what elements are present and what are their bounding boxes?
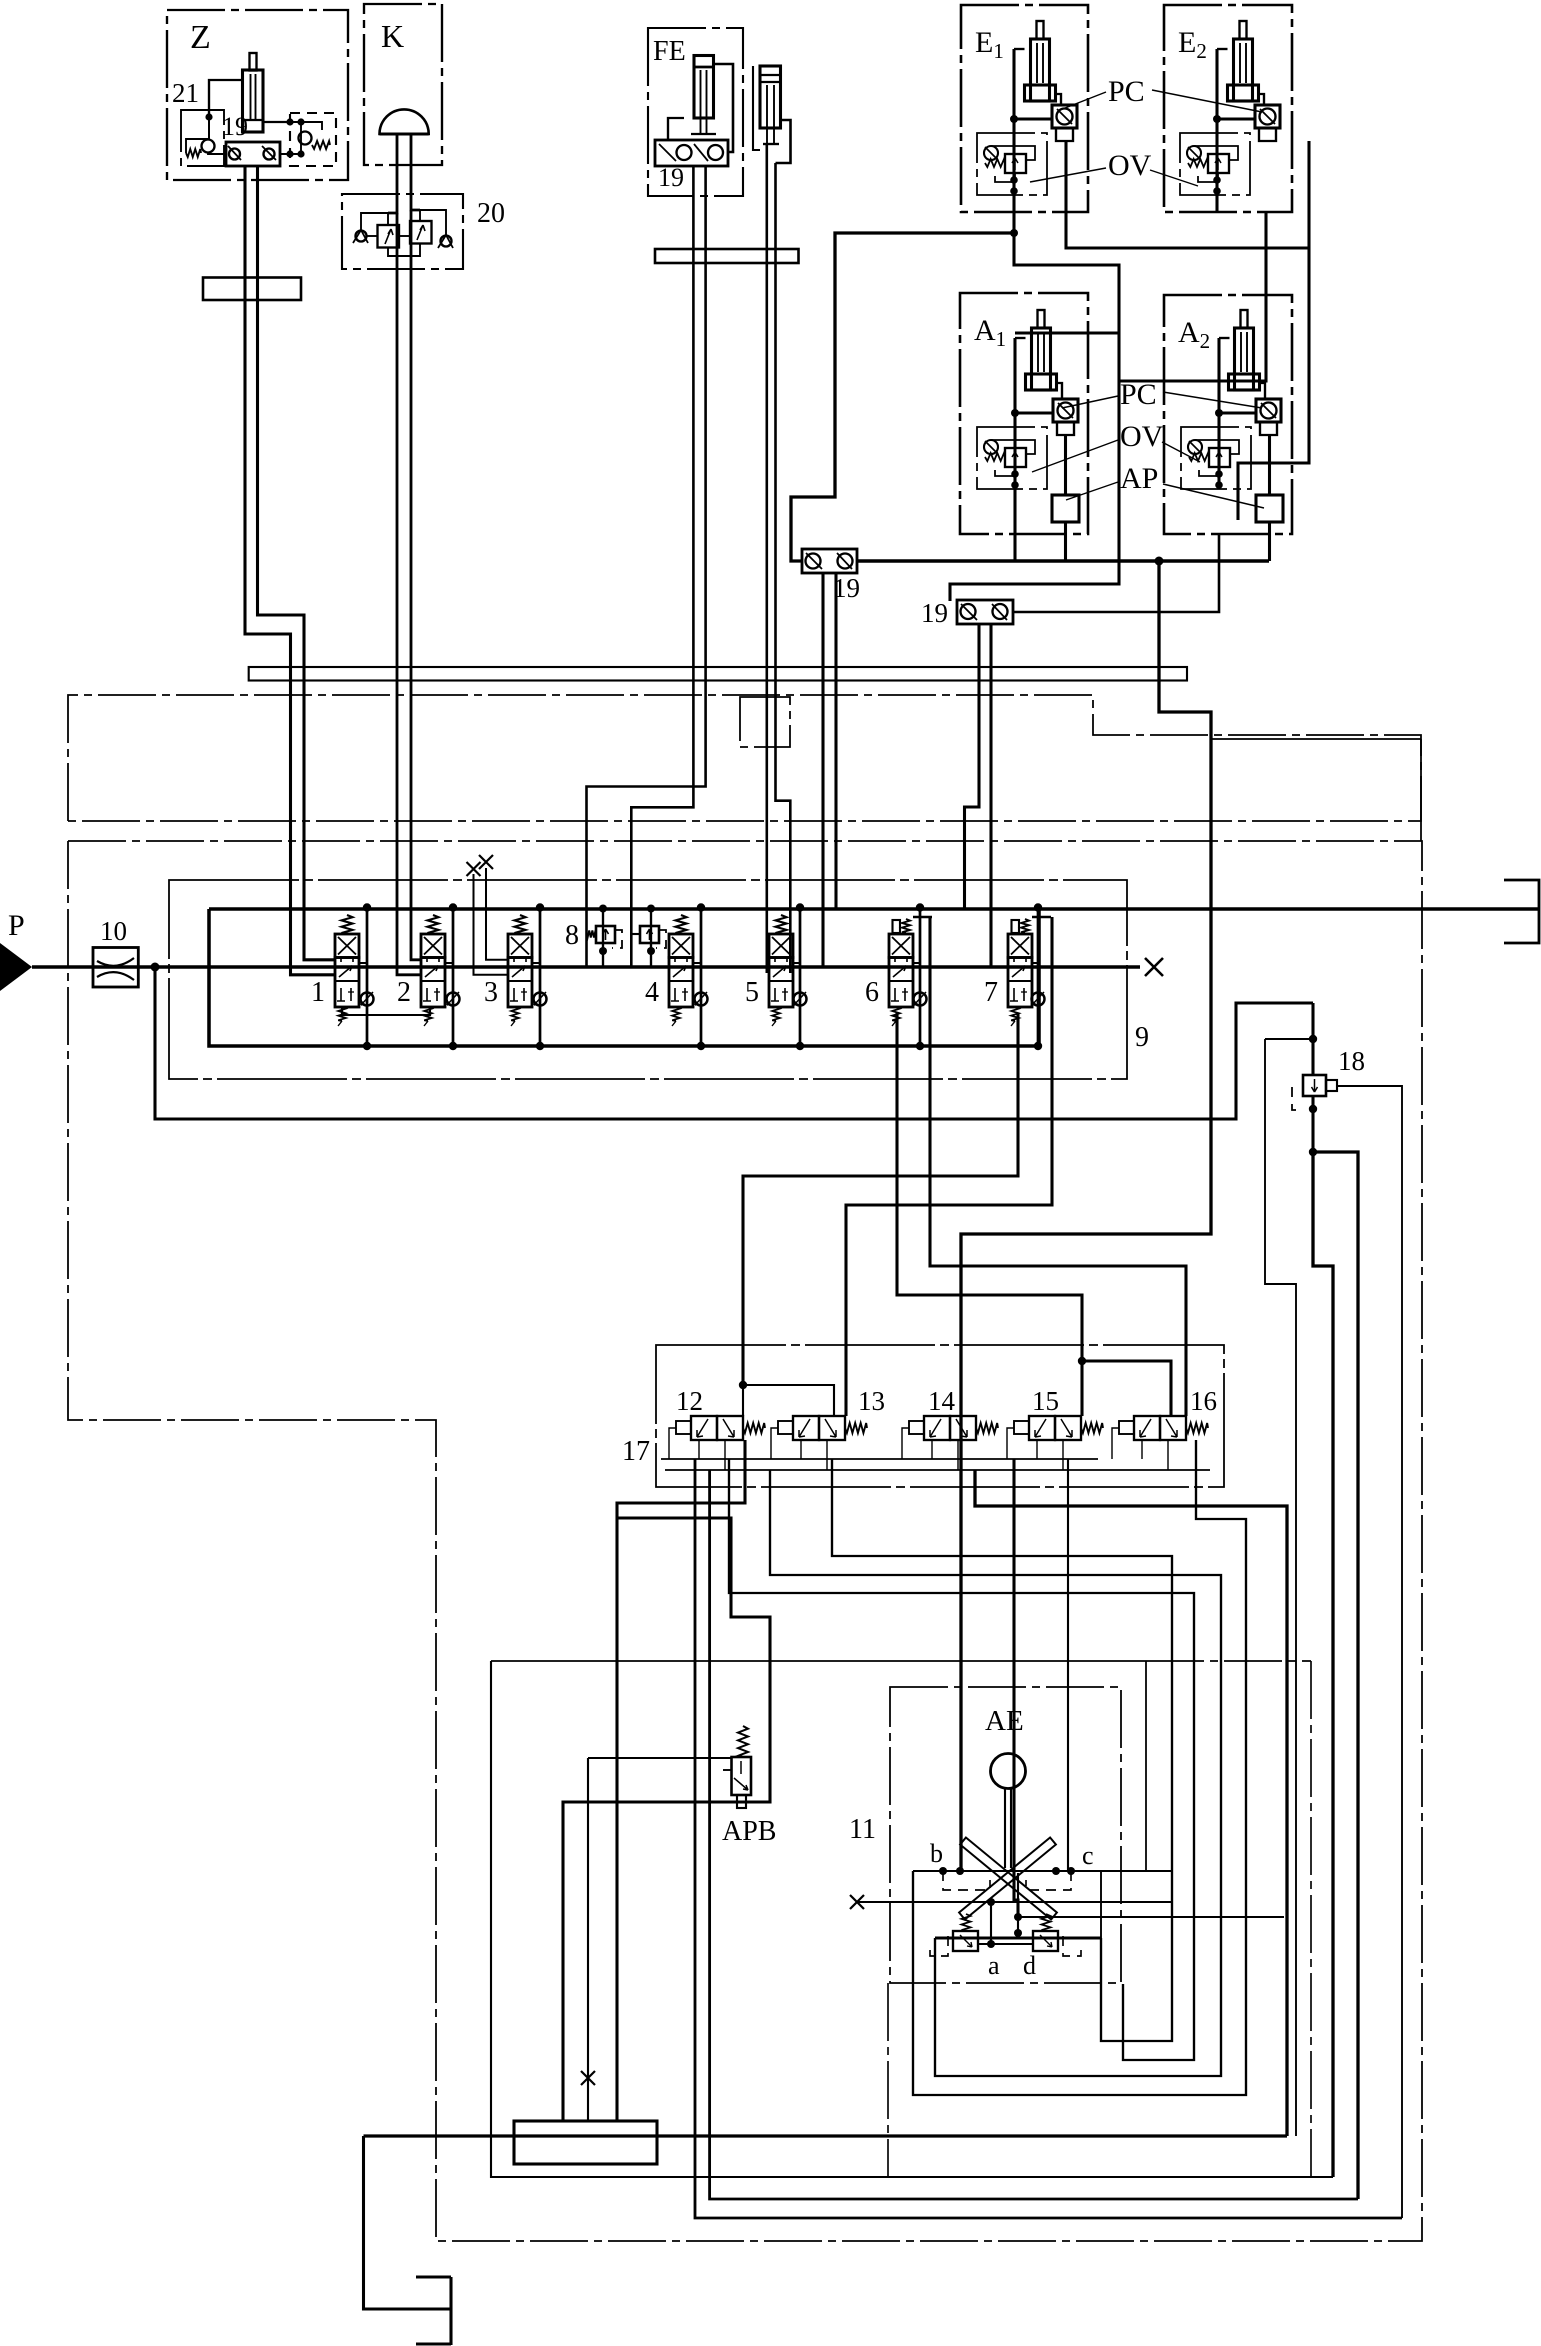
- pedal dome K: [380, 109, 429, 134]
- shuttle block 19 (upper): [802, 549, 857, 573]
- remote control box 11: [890, 1687, 1121, 1983]
- joystick paddles: [960, 1838, 1057, 1920]
- P inlet arrow: [0, 943, 32, 991]
- pilot valve a: [953, 1931, 978, 1951]
- check valve PC (E1): [1052, 105, 1077, 128]
- wire: [1012, 49, 1015, 119]
- wire: [263, 121, 290, 123]
- joystick stem: [1004, 1789, 1006, 1868]
- wire trunk right: [961, 561, 1211, 1871]
- solenoid valve 15: [1029, 1416, 1055, 1440]
- bottom manifold block: [514, 2121, 657, 2164]
- shuttle block 19 (lower): [957, 600, 1013, 624]
- wire: [776, 120, 791, 163]
- svg-text:6: 6: [865, 977, 879, 1008]
- svg-text:OV: OV: [1108, 149, 1152, 182]
- stub: [669, 1428, 676, 1459]
- svg-text:1: 1: [311, 977, 325, 1008]
- svg-text:19: 19: [921, 598, 948, 628]
- check valve (Z right): [290, 113, 336, 166]
- node a-d: [987, 1940, 995, 1948]
- wire v7a: [743, 1013, 1018, 1385]
- solenoid valve 14: [924, 1416, 950, 1440]
- accumulator AP (A1): [1052, 495, 1079, 522]
- relief valve 8a: [596, 926, 615, 943]
- small dash box: [740, 697, 790, 747]
- svg-text:Z: Z: [190, 19, 211, 56]
- svg-text:13: 13: [858, 1386, 885, 1416]
- overload valve OV (E2): [1180, 133, 1250, 195]
- cylinder FE: [694, 56, 714, 119]
- svg-text:9: 9: [1135, 1022, 1149, 1053]
- wire A1 feed: [1015, 331, 1119, 334]
- plug X (P end): [1145, 958, 1163, 976]
- wire v7b: [846, 917, 1052, 1416]
- dashed brackets: [943, 1871, 990, 1890]
- solenoid valve 12: [691, 1416, 717, 1440]
- inter-valve link: [342, 1007, 430, 1015]
- wire K-b: [411, 134, 420, 210]
- wire 19 outputs: [821, 573, 824, 966]
- node: [739, 1381, 747, 1389]
- pilot branch wire: [155, 967, 1313, 1119]
- wire: [1217, 413, 1220, 474]
- node: [1010, 229, 1018, 237]
- joystick springs: [962, 1914, 971, 1931]
- dash line lower: [1146, 1660, 1311, 1662]
- wire APB branch: [563, 1518, 770, 2121]
- main pressure line P: [32, 965, 1140, 969]
- wire U6: [491, 1661, 1333, 2177]
- wire: [1064, 435, 1067, 495]
- wire: [1268, 522, 1271, 561]
- directional valve 1: [342, 915, 353, 934]
- pilot valve 18: [1311, 1003, 1314, 1075]
- node: [1014, 1913, 1022, 1921]
- node c1: [1052, 1867, 1060, 1875]
- svg-text:PC: PC: [1108, 75, 1145, 108]
- check valve circle (20 right): [441, 236, 452, 247]
- wire E2 PC down: [1238, 141, 1309, 520]
- stub: [800, 1440, 802, 1459]
- check valve circle (20 left): [356, 231, 367, 242]
- directional valve 4: [676, 915, 687, 934]
- wire E1 PC cross: [1066, 141, 1309, 248]
- node: [1155, 557, 1164, 566]
- overload valve OV (E1): [977, 133, 1047, 195]
- node: [1010, 115, 1018, 123]
- svg-text:8: 8: [565, 920, 579, 951]
- leader: [1150, 170, 1198, 186]
- check valve 21: [181, 110, 224, 166]
- wire 12 out: [617, 1440, 745, 2121]
- cylinder A2: [1235, 328, 1254, 390]
- assembly box A1: [960, 293, 1088, 534]
- wire: [1265, 1038, 1313, 1040]
- stub: [1141, 1440, 1143, 1459]
- leader: [1152, 90, 1262, 112]
- wire Z-a: [245, 166, 335, 975]
- leader: [1163, 484, 1264, 508]
- restrictor 10: [93, 948, 138, 988]
- cylinder E1: [1031, 39, 1050, 101]
- svg-text:16: 16: [1190, 1386, 1217, 1416]
- wire APB supply: [588, 1757, 731, 1759]
- plugged pilot lines: [474, 874, 509, 975]
- wire: [1012, 119, 1015, 180]
- svg-text:15: 15: [1032, 1386, 1059, 1416]
- wire 18 down: [1313, 1152, 1333, 2177]
- shuttle block 19 (Z): [226, 142, 280, 166]
- solenoid valve 13: [793, 1416, 819, 1440]
- node c2: [1067, 1867, 1075, 1875]
- svg-text:P: P: [8, 909, 25, 942]
- wire: [1311, 1096, 1314, 1152]
- port line with taps: [913, 1870, 1172, 1872]
- stub: [931, 1440, 933, 1459]
- directional valve 3: [515, 915, 526, 934]
- dash edge: [1310, 1661, 1312, 2177]
- cylinder Z: [243, 70, 264, 132]
- wire F-a: [765, 144, 768, 973]
- manifold line: [935, 1936, 1101, 1939]
- plug X: [850, 1895, 864, 1909]
- joystick ball AE: [991, 1754, 1026, 1789]
- wire: [1215, 49, 1218, 119]
- wire 18 down-right: [1313, 1152, 1358, 2199]
- shuttle block 19 (FE): [655, 140, 728, 166]
- node: [1215, 409, 1223, 417]
- cylinder F: [760, 66, 781, 128]
- svg-text:APB: APB: [722, 1816, 776, 1847]
- wire K-a: [388, 134, 397, 213]
- wire w7: [1067, 1459, 1069, 1871]
- wire 15-16 link: [1082, 1361, 1171, 1416]
- svg-text:19: 19: [222, 112, 248, 141]
- wire 12-13 link: [743, 1385, 834, 1416]
- leader: [1060, 92, 1106, 110]
- svg-text:11: 11: [849, 1814, 876, 1845]
- svg-text:18: 18: [1338, 1046, 1365, 1076]
- wire: [1013, 413, 1016, 474]
- enclosure (pilot band): [68, 695, 1421, 821]
- svg-text:FE: FE: [653, 36, 686, 67]
- directional valve 2: [428, 915, 439, 934]
- staircase bottom left: [364, 2136, 452, 2309]
- svg-text:K: K: [381, 18, 404, 54]
- wire w4: [770, 1470, 1221, 2076]
- directional valve 7: [1012, 920, 1020, 933]
- wire U7: [710, 1470, 1358, 2199]
- wire: [361, 213, 388, 230]
- check valve PC (E2): [1255, 105, 1280, 128]
- wire F-b: [776, 163, 791, 973]
- wire 18 tab: [1337, 1086, 1402, 2218]
- wire: [714, 64, 734, 152]
- node: [1309, 1148, 1317, 1156]
- cylinder E2: [1234, 39, 1253, 101]
- stub: [698, 1440, 700, 1459]
- wire valve12 pilot loop: [695, 1459, 1402, 2218]
- wire Z-b: [258, 166, 336, 960]
- wire w2 (16 out): [913, 1440, 1246, 2095]
- wire: [420, 210, 446, 236]
- stub: [1112, 1428, 1119, 1459]
- stub: [1007, 1428, 1014, 1459]
- plug X: [479, 855, 493, 869]
- wire E1 to 19 block: [791, 233, 1014, 561]
- svg-text:b: b: [930, 1839, 943, 1868]
- wire y739: [1211, 738, 1421, 740]
- node: [205, 113, 212, 120]
- manifold rect: [209, 909, 1039, 1046]
- overload valve OV (A1): [977, 427, 1047, 489]
- X pilot line: [857, 1901, 1172, 1903]
- wire E2 work line: [1119, 212, 1266, 381]
- stub: [1036, 1440, 1038, 1459]
- svg-text:c: c: [1082, 1841, 1094, 1870]
- svg-text:7: 7: [984, 977, 998, 1008]
- svg-text:10: 10: [100, 916, 127, 946]
- node: [1309, 1035, 1317, 1043]
- node b1: [939, 1867, 947, 1875]
- svg-text:3: 3: [484, 977, 498, 1008]
- svg-text:12: 12: [676, 1386, 703, 1416]
- svg-text:a: a: [988, 1951, 1000, 1980]
- stub: [724, 1440, 726, 1470]
- svg-text:d: d: [1023, 1951, 1036, 1980]
- assembly box A2: [1164, 295, 1292, 534]
- pilot valve d: [1033, 1931, 1058, 1951]
- wire w1 (15 out): [975, 1470, 1287, 2136]
- directional valve 6: [893, 920, 901, 933]
- wire FE-b: [587, 166, 706, 967]
- plug X: [467, 862, 481, 876]
- wire: [1217, 338, 1220, 413]
- right bracket: [1504, 880, 1539, 943]
- dash edge: [887, 1983, 889, 2177]
- wire: [668, 118, 684, 140]
- node b2: [956, 1867, 964, 1875]
- wire right drop: [1420, 739, 1422, 841]
- node P branch: [151, 963, 160, 972]
- overload valve OV (A2): [1181, 427, 1251, 489]
- wire w6 (14 out): [1014, 1459, 1018, 1917]
- svg-text:AE: AE: [985, 1705, 1024, 1737]
- svg-text:21: 21: [172, 78, 199, 108]
- svg-text:5: 5: [745, 977, 759, 1008]
- throttle valve (20 left): [378, 225, 400, 248]
- assembly box K: [364, 4, 442, 165]
- crossbar FE/F: [655, 249, 799, 263]
- pilot valve group 17: [656, 1345, 1224, 1487]
- wire: [1013, 338, 1016, 413]
- svg-text:17: 17: [622, 1436, 650, 1467]
- solenoid valve 16: [1134, 1416, 1160, 1440]
- cylinder A1: [1032, 328, 1051, 390]
- wire 19 upper to A row: [857, 559, 1269, 563]
- assembly box FE: [648, 28, 743, 196]
- svg-text:20: 20: [477, 198, 505, 229]
- relief valve 8b: [640, 926, 659, 943]
- node: [1011, 409, 1019, 417]
- leader: [1030, 168, 1106, 182]
- wire: [209, 80, 243, 117]
- wire thin left of 18: [1265, 1039, 1296, 2136]
- accumulator AP (A2): [1256, 495, 1283, 522]
- wire A2 work out: [1013, 534, 1219, 612]
- wire d to right: [1018, 1916, 1284, 1918]
- throttle valve (20 right): [410, 221, 432, 244]
- wire: [1145, 1661, 1147, 1871]
- check valve PC (A2): [1256, 399, 1281, 422]
- stub: [826, 1440, 828, 1470]
- wire: [1259, 94, 1265, 105]
- node: [987, 1898, 995, 1906]
- stub: [902, 1428, 909, 1459]
- directional valve 5: [776, 915, 787, 934]
- drain dash: [1292, 1087, 1303, 1110]
- wire E1 work line: [950, 212, 1119, 601]
- pilot bus lines: [661, 1458, 1098, 1460]
- plug X: [581, 2071, 595, 2085]
- leader: [1162, 442, 1200, 462]
- wire: [1260, 383, 1266, 399]
- assembly box Z: [167, 10, 348, 180]
- wire: [753, 66, 760, 150]
- wire: [388, 244, 420, 257]
- wire w5: [729, 1459, 1194, 2060]
- svg-text:2: 2: [397, 977, 411, 1008]
- crossbar Z: [203, 278, 301, 301]
- control block 9 outline: [169, 880, 1127, 1079]
- leader: [1032, 440, 1118, 472]
- wire long bottom: [364, 2134, 1288, 2137]
- wire: [1057, 383, 1063, 399]
- relief valve APB: [738, 1726, 748, 1757]
- wire v6b: [930, 917, 1186, 1416]
- top rail: [209, 907, 1540, 911]
- stub: [1062, 1440, 1064, 1470]
- svg-text:4: 4: [645, 977, 659, 1008]
- duct bar: [249, 667, 1187, 681]
- svg-text:14: 14: [928, 1386, 956, 1416]
- enclosure (main system): [68, 841, 1422, 2241]
- wire: [1268, 435, 1271, 495]
- node: [1309, 1105, 1317, 1113]
- node: [1213, 115, 1221, 123]
- wire w3 (13 out): [832, 1459, 1172, 2041]
- wire 19 lower outputs: [965, 624, 980, 909]
- svg-text:PC: PC: [1120, 378, 1157, 411]
- wire: [1056, 94, 1062, 105]
- joystick center wires: [990, 1902, 992, 1944]
- wire FE-a: [631, 166, 693, 967]
- node: [1078, 1357, 1086, 1365]
- leader: [1062, 396, 1118, 408]
- svg-text:AP: AP: [1120, 462, 1158, 495]
- stub: [957, 1440, 959, 1470]
- leader: [1163, 392, 1262, 408]
- stub: [771, 1428, 778, 1459]
- wire y1661: [491, 1660, 1146, 1662]
- stub: [1167, 1440, 1169, 1470]
- assembly box E1: [961, 5, 1088, 212]
- wire c drop: [1100, 1871, 1102, 1938]
- wire v6a: [897, 1013, 1082, 1416]
- check valve PC (A1): [1053, 399, 1078, 422]
- leader: [1066, 482, 1118, 500]
- svg-text:OV: OV: [1120, 420, 1164, 453]
- assembly box E2: [1164, 5, 1292, 212]
- valve block 20: [342, 194, 463, 269]
- wire: [1064, 522, 1067, 561]
- wire: [1215, 119, 1218, 180]
